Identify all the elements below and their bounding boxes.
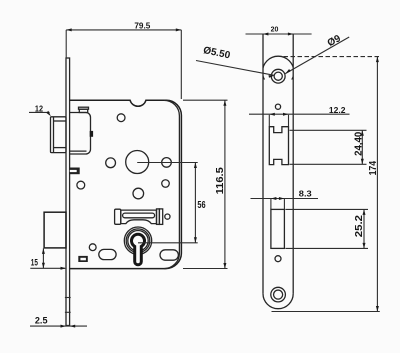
spring anchor bracket at faceplate [69,168,80,175]
latch spring clip [90,131,93,137]
dimension 79.5 [66,22,181,99]
hole small above latch cutout [275,104,280,109]
svg-text:24,40: 24,40 [353,131,364,156]
svg-text:25.2: 25.2 [354,215,365,238]
latch bolt body inside case [70,113,91,155]
dimension 15 [30,248,66,269]
latch guide tab [79,107,89,109]
leader from follower center [137,162,198,164]
svg-text:79.5: 79.5 [134,22,150,31]
follower hole left [106,158,116,168]
dimension 2.5 [30,315,87,327]
lock case outline [70,100,182,268]
dimension 25.2 [285,209,368,248]
leader dia 5.50 [196,45,274,78]
oval slot right [160,250,178,260]
hole below deadbolt cutout [275,256,281,262]
dimension 24.40 [290,130,367,164]
svg-text:174: 174 [367,161,379,176]
latch bolt head [51,117,67,153]
hole right [162,158,172,168]
svg-text:116.5: 116.5 [215,167,226,195]
faceplate break ticks [65,297,71,299]
dimension 12.2 [249,105,350,126]
cylinder rings [124,227,151,254]
dimension 12 [29,104,51,116]
pin circle right of slider [165,214,170,219]
deadbolt cutout [271,209,285,248]
dimension 8.3 [251,188,319,209]
dimension 56 [194,163,206,243]
svg-text:20: 20 [271,25,279,34]
hole mid [133,188,144,199]
top screw hole [271,69,285,83]
dimension 20 [246,25,312,36]
bottom screw hole [271,287,286,302]
deadbolt [44,212,66,248]
oval slot left [99,249,116,259]
stop plate bottom-left [78,256,88,262]
follower hole big [126,151,149,174]
faceplate edge strip [66,58,70,326]
svg-text:12: 12 [35,104,44,113]
dimension 174 [272,57,380,312]
slider mechanism [115,209,163,225]
dimension 116.5 [183,100,228,268]
cylinder keyhole profile [132,234,145,265]
lock case inner fold line right edge [164,100,180,268]
leader from cylinder center [138,242,198,244]
svg-text:8.3: 8.3 [299,188,312,198]
hole small mid [162,180,170,188]
hole above oval [89,244,96,251]
leader dia 9 [285,33,349,74]
svg-text:56: 56 [197,200,206,211]
svg-text:15: 15 [31,257,38,267]
svg-text:2.5: 2.5 [35,315,48,325]
svg-text:12.2: 12.2 [329,105,346,115]
faceplate outline [263,34,293,309]
latch cutout [269,127,288,165]
hole near faceplate [77,181,85,189]
hole top-left [117,114,125,122]
